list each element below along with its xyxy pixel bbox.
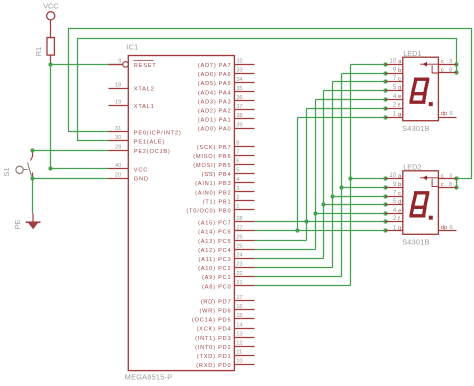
pin 23 stub <box>235 267 255 269</box>
pin 2 stub <box>235 200 255 202</box>
switch S1 lever <box>28 163 32 177</box>
pin 29 stub <box>109 150 129 152</box>
pin 25 stub <box>235 249 255 251</box>
svg-text:(A9) PC1: (A9) PC1 <box>202 275 231 281</box>
LED2 pin 1 (g) stub <box>386 230 403 232</box>
svg-text:(A14) PC6: (A14) PC6 <box>198 230 231 236</box>
pin 33 stub <box>235 73 255 75</box>
wire segment c vertical <box>332 82 334 268</box>
svg-text:26: 26 <box>236 234 242 240</box>
svg-text:d: d <box>398 85 401 91</box>
switch S1 bottom stub <box>32 173 34 179</box>
junction LED2 g <box>383 228 387 232</box>
svg-text:PE0(ICP/INT2): PE0(ICP/INT2) <box>134 130 182 136</box>
wire PC4 row <box>255 249 316 251</box>
svg-text:25: 25 <box>236 244 242 250</box>
LED2 pin 9 (b) stub <box>386 187 403 189</box>
wire VCC to R1 <box>50 20 52 38</box>
svg-text:8: 8 <box>449 182 452 188</box>
pin 16 stub <box>235 309 255 311</box>
svg-text:VCC: VCC <box>43 2 58 11</box>
svg-text:(AIN1) PB3: (AIN1) PB3 <box>195 181 231 187</box>
pin 36 stub <box>235 100 255 102</box>
svg-text:c: c <box>441 174 444 180</box>
wire PC3 row <box>255 258 324 260</box>
svg-text:PE1(ALE): PE1(ALE) <box>134 140 165 146</box>
LED2 pin 2 (f) stub <box>386 221 403 223</box>
pin 32 stub <box>235 64 255 66</box>
wire net LED1 common (PE1) <box>78 39 457 141</box>
svg-text:dp: dp <box>441 111 447 117</box>
svg-text:6: 6 <box>450 225 453 231</box>
wire node to RESET pin <box>51 64 124 66</box>
pin 35 stub <box>235 91 255 93</box>
wire segment e to LED2 pin <box>316 213 386 215</box>
svg-text:S1: S1 <box>2 168 11 177</box>
wire segment c to LED1 pin <box>333 81 386 83</box>
svg-text:5: 5 <box>393 198 397 205</box>
svg-text:38: 38 <box>236 113 242 119</box>
svg-text:9: 9 <box>393 181 397 188</box>
svg-text:c: c <box>441 182 444 188</box>
junction segment f at PC7 row <box>304 219 308 223</box>
LED2 led indicator arrow <box>420 176 439 187</box>
svg-text:GND: GND <box>134 177 149 183</box>
pin 20 stub <box>109 178 129 180</box>
pin 6 stub <box>235 164 255 166</box>
wire segment a vertical <box>350 65 352 286</box>
svg-text:2: 2 <box>236 195 239 201</box>
LED1 led indicator arrow <box>420 63 439 74</box>
svg-text:4: 4 <box>393 93 397 100</box>
svg-text:7: 7 <box>393 190 397 197</box>
svg-text:(AD5) PA5: (AD5) PA5 <box>198 81 232 87</box>
svg-text:37: 37 <box>236 104 242 110</box>
LED1 pin 2 (f) stub <box>386 108 403 110</box>
svg-text:(RD) PD7: (RD) PD7 <box>201 299 232 305</box>
junction segment c at LED2 row <box>330 194 334 198</box>
LED2 pin 4 (e) stub <box>386 213 403 215</box>
svg-text:RESET: RESET <box>134 63 157 69</box>
wire PC6 row to LED2 g <box>255 230 386 232</box>
svg-text:(SCK) PB7: (SCK) PB7 <box>197 145 232 151</box>
wire segment d vertical <box>323 91 325 259</box>
pin 15 stub <box>235 318 255 320</box>
svg-text:c: c <box>441 59 444 65</box>
svg-text:(T0/OC0) PB0: (T0/OC0) PB0 <box>186 209 231 215</box>
svg-text:(AD2) PA2: (AD2) PA2 <box>198 109 232 115</box>
ground PE symbol <box>26 214 41 230</box>
junction LED1 g <box>383 115 387 119</box>
junction segment b at LED2 row <box>339 185 343 189</box>
svg-text:1: 1 <box>393 110 397 117</box>
LED1 common pin 8 stub <box>439 72 457 74</box>
svg-text:3: 3 <box>449 59 452 65</box>
wire segment e to LED1 pin <box>316 99 386 101</box>
svg-text:(RXD) PD0: (RXD) PD0 <box>196 363 231 369</box>
pin 3 stub <box>235 191 255 193</box>
svg-text:(A15) PC7: (A15) PC7 <box>198 221 231 227</box>
svg-text:(SS) PB4: (SS) PB4 <box>202 172 232 178</box>
junction LED2 b <box>383 185 387 189</box>
LED2 pin 10 (a) stub <box>386 178 403 180</box>
svg-text:3: 3 <box>449 173 452 179</box>
LED1 pin 9 (b) stub <box>386 73 403 75</box>
svg-text:2: 2 <box>393 102 397 109</box>
junction LED1 f <box>383 106 387 110</box>
svg-text:21: 21 <box>236 280 242 286</box>
svg-text:VCC: VCC <box>134 168 148 174</box>
svg-text:8: 8 <box>449 68 452 74</box>
junction LED2 e <box>383 211 387 215</box>
pin 40 stub <box>109 168 129 170</box>
junction LED1 c8 <box>454 70 458 74</box>
svg-text:18: 18 <box>115 82 121 88</box>
svg-text:PE: PE <box>13 219 22 229</box>
svg-text:10: 10 <box>236 359 242 365</box>
svg-text:20: 20 <box>115 172 121 178</box>
svg-text:31: 31 <box>115 126 121 132</box>
wire segment b to LED2 pin <box>342 187 386 189</box>
svg-text:17: 17 <box>236 295 242 301</box>
svg-text:(WR) PD6: (WR) PD6 <box>199 309 231 315</box>
wire segment a to LED2 pin <box>351 178 386 180</box>
LED1 dp pin 6 stub <box>439 117 457 119</box>
svg-text:(XCK) PD4: (XCK) PD4 <box>197 327 232 333</box>
svg-text:33: 33 <box>236 68 242 74</box>
svg-text:(A12) PC4: (A12) PC4 <box>198 248 231 254</box>
wire segment f to LED1 pin <box>307 108 386 110</box>
LED1 pin 4 (e) stub <box>386 99 403 101</box>
svg-text:24: 24 <box>236 253 243 259</box>
junction LED2 f <box>383 219 387 223</box>
pin 14 stub <box>235 328 255 330</box>
wire segment d to LED1 pin <box>324 90 386 92</box>
op IC1 body <box>128 56 234 371</box>
pin 27 stub <box>235 230 255 232</box>
svg-text:MEGA8515-P: MEGA8515-P <box>125 372 173 381</box>
LED display LED1 body <box>403 57 439 120</box>
junction LED2 d <box>383 202 387 206</box>
pin 10 stub <box>235 364 255 366</box>
svg-text:22: 22 <box>236 271 242 277</box>
svg-text:PE2(OC1B): PE2(OC1B) <box>134 149 171 155</box>
junction segment g at PC6 row <box>295 228 299 232</box>
pin 4 stub <box>235 182 255 184</box>
junction at VCC row <box>48 166 52 170</box>
svg-text:7: 7 <box>393 75 397 82</box>
junction LED1 d <box>383 88 387 92</box>
pin 1 stub <box>235 209 255 211</box>
svg-text:7: 7 <box>236 150 239 156</box>
svg-text:1: 1 <box>393 224 397 231</box>
pin 26 stub <box>235 240 255 242</box>
svg-text:c: c <box>398 191 401 197</box>
pin 30 stub <box>109 140 129 142</box>
LED1 pin 5 (d) stub <box>386 90 403 92</box>
svg-text:23: 23 <box>236 262 242 268</box>
svg-text:2: 2 <box>393 215 397 222</box>
resistor R1 <box>34 38 54 57</box>
wire segment g to LED1 pin <box>298 117 386 119</box>
wire PC0 row <box>255 285 351 287</box>
svg-text:14: 14 <box>236 322 243 328</box>
junction LED1 c <box>383 79 387 83</box>
wire segment g vertical <box>297 118 299 231</box>
svg-text:(AD7) PA7: (AD7) PA7 <box>198 63 232 69</box>
svg-text:(T1) PB1: (T1) PB1 <box>203 199 232 205</box>
svg-text:(AIN0) PB2: (AIN0) PB2 <box>195 190 231 196</box>
svg-text:b: b <box>398 182 401 188</box>
LED1 pin 1 (g) stub <box>386 117 403 119</box>
svg-text:10: 10 <box>389 58 396 65</box>
junction LED1 b <box>383 71 387 75</box>
svg-text:e: e <box>398 208 401 214</box>
svg-text:39: 39 <box>236 122 242 128</box>
svg-text:b: b <box>398 68 401 74</box>
VCC supply symbol <box>43 2 58 20</box>
junction LED2 c8 <box>454 185 458 189</box>
wire LED2 c3-c8 tie <box>456 179 458 188</box>
svg-text:S4301B: S4301B <box>402 237 429 246</box>
svg-text:15: 15 <box>236 313 242 319</box>
svg-text:(A11) PC3: (A11) PC3 <box>199 257 232 263</box>
wire net LED2 common (PE0) <box>69 29 472 179</box>
pin 11 stub <box>235 355 255 357</box>
pin 34 stub <box>235 82 255 84</box>
svg-text:40: 40 <box>115 163 121 169</box>
svg-text:27: 27 <box>236 225 242 231</box>
svg-text:30: 30 <box>115 135 121 141</box>
switch S1 actuator circle <box>16 166 23 173</box>
pin 9 inverting bubble <box>123 62 129 68</box>
pin 17 stub <box>235 300 255 302</box>
wire switch bottom to ground <box>32 179 34 214</box>
junction LED1 c3 <box>454 62 458 66</box>
wire segment b vertical <box>341 74 343 277</box>
svg-text:(A10) PC2: (A10) PC2 <box>198 266 231 272</box>
junction segment e at LED2 row <box>313 211 317 215</box>
pin 12 stub <box>235 346 255 348</box>
svg-text:34: 34 <box>236 77 243 83</box>
svg-text:9: 9 <box>118 59 121 65</box>
LED2 common pin 3 stub <box>439 178 457 180</box>
svg-text:(OC1A) PD5: (OC1A) PD5 <box>192 318 231 324</box>
svg-text:36: 36 <box>236 95 242 101</box>
junction switch top <box>30 148 34 152</box>
switch S1 top stub <box>32 152 34 157</box>
svg-text:(MISO) PB6: (MISO) PB6 <box>193 154 231 160</box>
svg-text:dp: dp <box>441 225 447 231</box>
wire PC2 row <box>255 267 333 269</box>
svg-text:29: 29 <box>115 144 121 150</box>
node RESET junction <box>48 62 52 66</box>
svg-text:(AD0) PA0: (AD0) PA0 <box>198 127 232 133</box>
svg-text:LED1: LED1 <box>403 49 421 58</box>
pin 8 stub <box>235 146 255 148</box>
svg-text:d: d <box>398 200 401 206</box>
pin 18 stub <box>109 88 129 90</box>
svg-text:IC1: IC1 <box>126 43 138 52</box>
wire segment b to LED1 pin <box>342 73 386 75</box>
svg-text:(AD3) PA3: (AD3) PA3 <box>198 99 232 105</box>
svg-text:c: c <box>398 77 401 83</box>
svg-text:(AD6) PA6: (AD6) PA6 <box>198 72 232 78</box>
svg-text:16: 16 <box>236 304 242 310</box>
svg-text:(A8) PC0: (A8) PC0 <box>202 284 231 290</box>
pin 9 stub <box>109 64 123 66</box>
junction switch bottom <box>30 176 34 180</box>
wire switch top to PE2 pin <box>33 150 109 152</box>
wire R1 to node <box>50 56 52 65</box>
pin 28 stub <box>235 221 255 223</box>
svg-text:6: 6 <box>450 111 453 117</box>
junction LED1 a <box>383 62 387 66</box>
pin 19 stub <box>109 105 129 107</box>
svg-text:5: 5 <box>236 168 239 174</box>
pin 37 stub <box>235 109 255 111</box>
svg-text:LED2: LED2 <box>403 163 421 172</box>
svg-text:19: 19 <box>115 100 121 106</box>
svg-text:9: 9 <box>393 66 397 73</box>
pin 13 stub <box>235 337 255 339</box>
svg-text:(AD1) PA1: (AD1) PA1 <box>198 118 232 124</box>
svg-text:32: 32 <box>236 59 242 65</box>
wire segment a to LED1 pin <box>351 64 386 66</box>
svg-text:XTAL2: XTAL2 <box>134 87 155 93</box>
LED1 seven segment digit <box>409 79 429 102</box>
svg-text:13: 13 <box>236 331 242 337</box>
svg-text:c: c <box>441 68 444 74</box>
junction LED2 a <box>383 176 387 180</box>
junction LED2 c3 <box>454 176 458 180</box>
LED1 pin 7 (c) stub <box>386 81 403 83</box>
pin 5 stub <box>235 173 255 175</box>
svg-text:8: 8 <box>236 140 239 146</box>
wire PC7 row to LED2 f <box>255 221 386 223</box>
svg-text:5: 5 <box>393 84 397 91</box>
wire switch bottom to GND pin <box>33 178 109 180</box>
wire PC5 row <box>255 240 307 242</box>
LED display LED2 body <box>403 171 439 235</box>
wire segment f vertical <box>306 109 308 241</box>
svg-text:(A13) PC5: (A13) PC5 <box>198 239 231 245</box>
wire segment c to LED2 pin <box>333 196 386 198</box>
svg-text:(AD4) PA4: (AD4) PA4 <box>198 90 232 96</box>
svg-text:3: 3 <box>236 186 239 192</box>
wire segment e vertical <box>315 100 317 250</box>
junction LED2 c <box>383 194 387 198</box>
svg-text:S4301B: S4301B <box>402 124 429 133</box>
LED2 common pin 8 stub <box>439 187 457 189</box>
LED1 common pin 3 stub <box>439 64 457 66</box>
pin 7 stub <box>235 155 255 157</box>
svg-text:XTAL1: XTAL1 <box>134 104 155 110</box>
junction segment a at LED2 row <box>348 176 352 180</box>
svg-text:11: 11 <box>236 350 242 356</box>
wire PC1 row <box>255 276 342 278</box>
svg-text:10: 10 <box>389 172 396 179</box>
pin 22 stub <box>235 276 255 278</box>
svg-text:35: 35 <box>236 86 242 92</box>
svg-text:(TXD) PD1: (TXD) PD1 <box>197 354 232 360</box>
svg-text:(INT1) PD3: (INT1) PD3 <box>195 336 231 342</box>
svg-text:6: 6 <box>236 159 239 165</box>
pin 24 stub <box>235 258 255 260</box>
wire node down to VCC pin row <box>51 65 109 169</box>
svg-text:(MOSI) PB5: (MOSI) PB5 <box>193 163 231 169</box>
switch S1 actuator rod <box>24 169 28 171</box>
wire segment d to LED2 pin <box>324 204 386 206</box>
junction LED1 e <box>383 97 387 101</box>
svg-text:e: e <box>398 94 401 100</box>
svg-text:g: g <box>398 226 401 232</box>
pin 38 stub <box>235 118 255 120</box>
LED2 dp pin 6 stub <box>439 230 457 232</box>
svg-text:1: 1 <box>236 204 239 210</box>
pin 39 stub <box>235 128 255 130</box>
svg-text:(INT0) PD2: (INT0) PD2 <box>195 345 231 351</box>
switch S1 top contact tick <box>31 157 33 161</box>
LED1 pin 10 (a) stub <box>386 64 403 66</box>
pin 31 stub <box>109 131 129 133</box>
overline RESET <box>134 60 154 62</box>
junction segment d at LED2 row <box>321 202 325 206</box>
svg-text:12: 12 <box>236 341 242 347</box>
pin 21 stub <box>235 285 255 287</box>
LED2 pin 5 (d) stub <box>386 204 403 206</box>
svg-text:28: 28 <box>236 216 242 222</box>
svg-text:4: 4 <box>393 207 397 214</box>
svg-text:g: g <box>398 112 401 118</box>
LED2 seven segment digit <box>409 193 429 216</box>
svg-text:R1: R1 <box>34 47 43 56</box>
LED2 pin 7 (c) stub <box>386 196 403 198</box>
